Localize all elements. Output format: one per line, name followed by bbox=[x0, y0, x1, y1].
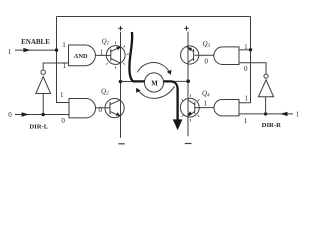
svg-text:DIR-R: DIR-R bbox=[262, 122, 281, 129]
node AND3 input / right rail junction bbox=[249, 48, 252, 51]
wire inverter-R output to AND3 lower input bbox=[239, 63, 266, 74]
svg-text:1: 1 bbox=[245, 94, 249, 102]
svg-text:0: 0 bbox=[8, 111, 12, 119]
transistor Q3 bbox=[181, 46, 199, 64]
svg-text:AND: AND bbox=[74, 53, 88, 60]
svg-text:1: 1 bbox=[203, 100, 207, 108]
arrowhead ENABLE input bbox=[23, 48, 30, 52]
wire left vertical drop from top rail to lower-left AND input bbox=[57, 17, 70, 103]
svg-text:DIR-L: DIR-L bbox=[29, 124, 48, 131]
svg-text:Q4: Q4 bbox=[202, 90, 210, 99]
power + symbol right bbox=[184, 26, 188, 30]
AND gate AND3 mirrored (drives Q3) bbox=[214, 47, 239, 65]
wire right power rail through Q3 and Q4 bbox=[187, 32, 189, 136]
transistor Q4 bbox=[180, 98, 199, 117]
AND gate AND4 mirrored (drives Q4) bbox=[214, 100, 239, 116]
inverter left (DIR-L) bbox=[36, 70, 51, 94]
svg-text:1: 1 bbox=[60, 91, 64, 99]
svg-text:1: 1 bbox=[244, 43, 248, 51]
svg-text:Q2: Q2 bbox=[101, 88, 109, 97]
wire left power rail through Q1 and Q2 bbox=[120, 32, 122, 138]
current path heavy line right (from motor down through Q4) with arrowhead bbox=[163, 81, 177, 120]
svg-text:1: 1 bbox=[244, 117, 248, 125]
wire inverter-L output to AND1 lower input bbox=[43, 63, 68, 70]
wire AND2 output to Q2 base bbox=[95, 107, 110, 109]
node DIR-L junction bbox=[42, 113, 45, 116]
svg-text:1: 1 bbox=[62, 41, 66, 49]
AND gate AND1 (ENABLE and inverted DIR-L) bbox=[69, 45, 96, 66]
inverter right (DIR-R) bbox=[258, 74, 273, 97]
wire motor right lead bbox=[163, 80, 188, 82]
current path heavy line left (through Q1 into motor) bbox=[129, 32, 144, 81]
svg-text:0: 0 bbox=[244, 65, 248, 73]
wire top ENABLE distribution rail bbox=[57, 16, 251, 18]
svg-text:0: 0 bbox=[205, 57, 209, 65]
wire ENABLE input line bbox=[15, 49, 57, 51]
ground dash below Q4 bbox=[185, 143, 192, 145]
transistor Q1 bbox=[106, 46, 125, 65]
wire motor left lead bbox=[121, 81, 145, 83]
svg-text:Q1: Q1 bbox=[102, 38, 110, 47]
svg-text:1: 1 bbox=[100, 48, 104, 56]
wire DIR-R junction up to inverter-R bbox=[265, 97, 267, 114]
arrowhead DIR-L input bbox=[22, 112, 29, 116]
power + symbol left bbox=[118, 26, 122, 30]
wire right vertical drop from top rail to lower-right AND input bbox=[239, 17, 251, 103]
wire DIR-R input line bbox=[239, 113, 293, 115]
svg-text:1: 1 bbox=[8, 48, 12, 56]
wire AND4 output to Q4 base bbox=[195, 107, 214, 109]
ground dash below Q2 bbox=[118, 143, 124, 145]
wire DIR-L input line bbox=[15, 114, 69, 116]
transistor Q2 bbox=[105, 99, 124, 118]
node ENABLE junction bbox=[55, 48, 58, 51]
wire DIR-L junction up to inverter-L bbox=[42, 94, 44, 115]
svg-text:0: 0 bbox=[61, 117, 65, 125]
wire AND3 top input stub to right rail bbox=[239, 49, 251, 51]
wire AND1 output to Q1 base bbox=[95, 54, 111, 56]
svg-text:ENABLE: ENABLE bbox=[21, 38, 50, 46]
svg-text:1: 1 bbox=[296, 110, 300, 118]
svg-text:1: 1 bbox=[62, 62, 66, 70]
ON rays around Q1 bbox=[106, 42, 129, 69]
node right motor terminal junction bbox=[186, 79, 190, 83]
AND gate AND2 (ENABLE and DIR-L) bbox=[69, 99, 96, 118]
node DIR-R junction bbox=[264, 112, 267, 115]
motor M bbox=[144, 73, 163, 92]
arrowhead DIR-R input (points left) bbox=[280, 112, 287, 116]
wire AND3 output to Q3 base bbox=[195, 54, 214, 56]
rotation arc upper bbox=[137, 62, 170, 73]
svg-text:0: 0 bbox=[99, 106, 103, 114]
rotation arc lower bbox=[138, 86, 175, 98]
svg-text:M: M bbox=[151, 81, 158, 88]
svg-text:Q3: Q3 bbox=[203, 40, 211, 49]
node left motor terminal junction bbox=[119, 80, 123, 84]
ON rays around Q4 bbox=[182, 95, 200, 122]
